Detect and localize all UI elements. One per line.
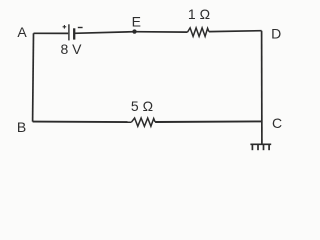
resistor R1 zigzag — [188, 28, 209, 37]
wire right side D to C to ground — [261, 31, 263, 145]
wire R1 to corner D — [209, 30, 262, 33]
node D label — [271, 26, 281, 42]
wire A corner to battery — [34, 32, 69, 34]
svg-text:1 Ω: 1 Ω — [188, 6, 210, 22]
svg-text:B: B — [17, 119, 26, 135]
ground symbol bar — [250, 143, 271, 145]
label 1 ohm — [188, 6, 210, 22]
battery minus sign — [78, 27, 83, 29]
svg-text:C: C — [272, 115, 282, 131]
svg-text:D: D — [271, 26, 281, 42]
battery plus sign — [63, 25, 67, 29]
svg-text:E: E — [132, 14, 141, 30]
wire R2 to junction C — [155, 120, 262, 123]
node A label — [17, 24, 27, 40]
label 5 ohm — [131, 98, 153, 114]
wire left side A to B — [32, 33, 35, 121]
battery V1 short plate (-) — [73, 28, 75, 39]
wire node E to resistor R1 — [135, 31, 188, 33]
node C label — [272, 115, 282, 131]
ground symbol teeth — [252, 145, 269, 150]
svg-text:5 Ω: 5 Ω — [131, 98, 153, 114]
battery V1 long plate (+) — [68, 24, 70, 40]
node E label — [132, 14, 141, 30]
resistor R2 zigzag — [132, 118, 156, 126]
svg-text:A: A — [17, 24, 27, 40]
node B label — [17, 119, 26, 135]
wire battery to node E — [74, 32, 134, 34]
svg-text:8 V: 8 V — [60, 41, 82, 57]
node E junction dot — [132, 29, 136, 33]
wire B corner to resistor R2 — [33, 121, 132, 124]
label 8 V — [60, 41, 82, 57]
